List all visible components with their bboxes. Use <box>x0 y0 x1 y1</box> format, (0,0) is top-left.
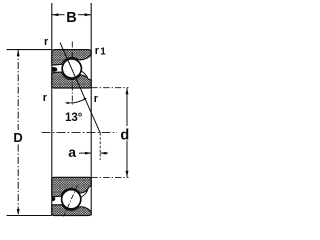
ball vertical dash-dot centerline (top section) <box>71 42 73 106</box>
node bottom bore line (dash-dot to d dimension) <box>91 176 128 178</box>
ball top section <box>62 59 81 78</box>
svg-text:r: r <box>43 92 48 104</box>
outer ring top section (hatched) <box>52 50 91 65</box>
dimension B line with arrows <box>52 13 91 16</box>
svg-text:r: r <box>44 36 49 48</box>
shoulder contact blob left (bottom section) <box>52 197 56 201</box>
contact angle line <box>60 43 100 134</box>
inner ring bottom section (hatched) <box>52 177 91 196</box>
label a <box>68 144 76 160</box>
node top bore line (dash-dot to d dimension) <box>91 87 128 89</box>
node pressure-centre tick <box>99 133 101 160</box>
inner ring top section (hatched) <box>52 72 91 88</box>
label r mid-right <box>94 93 99 105</box>
wire D top extension line <box>7 49 52 51</box>
bottom contact dash-dot line <box>64 186 78 217</box>
svg-text:1: 1 <box>100 47 106 58</box>
wire left side-face line (B extension / bearing left face) <box>51 3 53 216</box>
outer ring right shoulder edge (top section) <box>81 71 88 78</box>
svg-text:B: B <box>66 10 76 26</box>
svg-text:r: r <box>95 45 100 57</box>
label r1 top-right <box>95 45 106 58</box>
svg-text:d: d <box>120 128 129 144</box>
outer ring right shoulder edge (bottom section) <box>81 190 88 197</box>
dimension D line with arrows <box>17 50 20 216</box>
dimension d line with arrows <box>126 88 129 178</box>
svg-text:a: a <box>68 144 76 160</box>
svg-text:r: r <box>94 93 99 105</box>
label D <box>13 130 22 145</box>
label r top-left <box>44 36 49 48</box>
label r mid-left <box>43 92 48 104</box>
label 13 degrees <box>65 112 83 124</box>
label B <box>66 10 76 26</box>
svg-text:13°: 13° <box>65 112 83 124</box>
label d <box>120 128 129 144</box>
ball bottom section <box>62 190 81 209</box>
angle arc 13 degrees <box>65 98 86 105</box>
dimension a line with arrows <box>79 152 108 155</box>
wire D bottom extension line <box>7 215 52 217</box>
shoulder contact blob left (top section) <box>52 67 58 72</box>
svg-text:D: D <box>13 130 22 145</box>
wire right side-face line (B extension / bearing right face) <box>90 3 92 216</box>
outer ring bottom section (hatched) <box>52 205 91 216</box>
node axis centerline <box>42 132 118 134</box>
